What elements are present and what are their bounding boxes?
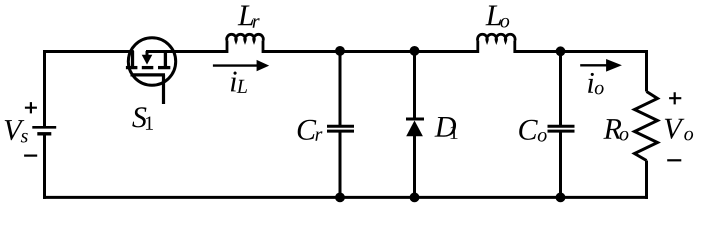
label Co	[519, 120, 546, 142]
wire: right vertical upper (to Ro)	[645, 50, 648, 92]
wire: right vertical lower (from Ro)	[645, 161, 648, 199]
resistor Ro zigzag	[635, 92, 658, 161]
transistor S1 gate lead	[162, 75, 165, 104]
label io	[588, 73, 604, 95]
node: D1 bottom junction	[410, 193, 420, 203]
wire: left vertical lower (Vs bottom lead)	[43, 134, 46, 199]
diode D1 cathode bar	[406, 118, 424, 121]
inductor Lr coil	[227, 34, 264, 53]
label + (Vo polarity)	[669, 92, 681, 104]
wire: top rail, MOSFET source side to Lr coil	[146, 50, 227, 53]
transistor S1 body-diode triangle	[142, 55, 153, 65]
wire: D1 upper lead	[413, 52, 416, 120]
transistor S1 right channel segment	[158, 66, 170, 69]
wire: Cr upper lead	[339, 52, 342, 126]
wire: bottom rail	[43, 196, 648, 199]
diode D1 anode triangle (pointing up)	[406, 121, 423, 137]
wire: left vertical upper (Vs top lead)	[43, 50, 46, 127]
node: Cr top junction	[335, 46, 345, 56]
transistor S1 left channel segment	[126, 66, 137, 69]
label D1	[435, 117, 458, 139]
label S1	[132, 107, 153, 129]
battery Vs long plate	[32, 126, 56, 129]
label - (Vs polarity)	[24, 155, 37, 157]
node: Co bottom junction	[556, 193, 566, 203]
transistor S1 drain contact bar	[131, 51, 134, 66]
wire: top rail, Lo to top-right corner	[515, 50, 649, 53]
wire: Co upper lead	[559, 52, 562, 126]
transistor S1 source contact bar	[164, 51, 167, 66]
capacitor Cr plates	[327, 126, 354, 131]
label Lr	[238, 6, 260, 28]
wire: top rail, left corner to MOSFET drain contact	[43, 50, 134, 53]
wire: Cr lower lead	[339, 133, 342, 198]
node: Cr bottom junction	[335, 193, 345, 203]
inductor Lo coil	[478, 34, 516, 53]
wire: top rail, Lr to Lo	[263, 50, 478, 53]
battery Vs short plate	[37, 132, 51, 135]
label Ro	[603, 119, 628, 140]
label + (Vs polarity)	[25, 102, 37, 113]
transistor S1 body-diode stub	[146, 51, 149, 56]
label - (Vo polarity)	[667, 159, 681, 161]
label Vo	[665, 119, 693, 141]
wire: Co lower lead	[559, 133, 562, 198]
transistor S1 middle channel segment	[142, 66, 154, 69]
node: D1 top junction	[410, 46, 420, 56]
arrow io current	[580, 59, 622, 72]
wire: D1 lower lead	[413, 136, 416, 197]
label Cr	[298, 120, 323, 141]
label iL	[231, 72, 247, 93]
label Vs	[5, 120, 28, 142]
transistor S1 body circle	[128, 38, 175, 85]
arrow iL current	[213, 60, 269, 71]
transistor S1 gate bar	[131, 73, 166, 76]
label Lo	[485, 6, 509, 28]
node: Co top junction	[556, 46, 566, 56]
capacitor Co plates	[548, 126, 575, 131]
